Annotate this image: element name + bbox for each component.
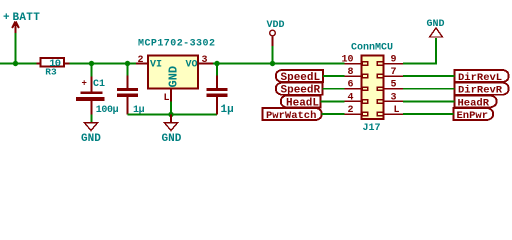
ground symbol below C1	[85, 123, 98, 131]
ground symbol below regulator	[165, 123, 178, 131]
wire SpeedL to pin 8	[323, 75, 345, 77]
C3 bottom pin	[216, 97, 218, 115]
resistor R3	[37, 58, 70, 77]
svg-text:GND: GND	[81, 133, 101, 145]
U1 pin VO stub	[198, 63, 213, 65]
svg-text:EnPwr: EnPwr	[457, 110, 489, 122]
wire pin 5 to DirRevR	[403, 88, 455, 90]
R3 left pin	[37, 63, 41, 65]
J17 pin 10 stub	[345, 63, 363, 65]
R3 right pin	[64, 63, 70, 65]
wire junction to ground symbol	[170, 115, 172, 123]
J17 pin 5 box	[377, 87, 383, 90]
svg-text:MCP1702-3302: MCP1702-3302	[138, 39, 215, 50]
J17 pin 6 stub	[345, 88, 363, 90]
svg-text:8: 8	[347, 67, 353, 78]
svg-text:R3: R3	[45, 66, 57, 77]
svg-text:9: 9	[391, 55, 397, 66]
wire pin 3 to HeadR	[403, 100, 455, 102]
C2 top plate	[117, 88, 138, 91]
svg-text:L: L	[164, 93, 170, 104]
J17 pin 4 stub	[345, 100, 363, 102]
J17 pin 4 box	[362, 100, 368, 103]
wire regulator GND pin to rail	[170, 102, 172, 115]
wire C3 to rail	[216, 64, 218, 77]
J17 body	[362, 56, 384, 120]
wire pin 9 to GND	[403, 38, 436, 64]
net label PwrWatch	[263, 108, 322, 122]
C2 bottom plate	[117, 94, 138, 97]
junction at C3 tap	[214, 61, 219, 66]
C1 top pin	[91, 77, 93, 93]
svg-text:VO: VO	[186, 60, 198, 71]
svg-text:3: 3	[391, 92, 397, 103]
svg-text:+: +	[82, 79, 87, 89]
capacitor C3 1u	[207, 76, 234, 117]
J17 pin 1 box	[377, 112, 383, 115]
J17 pin 3 stub	[384, 100, 404, 102]
C3 bottom plate	[207, 94, 228, 97]
svg-text:10: 10	[341, 55, 353, 66]
svg-text:L: L	[394, 105, 400, 116]
J17 pin 8 stub	[345, 75, 363, 77]
U1 body	[148, 56, 198, 89]
U1 pin GND stub	[170, 89, 172, 102]
svg-text:5: 5	[391, 80, 397, 91]
capacitor C2 1u	[117, 76, 145, 116]
junction at VDD tap	[270, 61, 275, 66]
wire from +BATT to rail	[15, 33, 17, 64]
wire SpeedR to pin 6	[323, 88, 345, 90]
C2 top pin	[127, 76, 129, 89]
junction at C2 tap	[125, 61, 130, 66]
J17 pin 6 box	[362, 87, 368, 90]
C3 top plate	[207, 88, 228, 91]
J17 pin 2 stub	[345, 113, 363, 115]
R3 body	[41, 58, 65, 66]
svg-text:VI: VI	[150, 60, 162, 71]
node +BATT supply	[3, 12, 40, 33]
svg-text:GND: GND	[162, 133, 182, 145]
svg-text:2: 2	[347, 105, 353, 116]
wire rail between R3 and regulator	[69, 63, 136, 65]
svg-text:4: 4	[347, 92, 353, 103]
svg-text:GND: GND	[167, 66, 181, 88]
svg-text:ConnMCU: ConnMCU	[351, 43, 393, 54]
J17 pin 8 box	[362, 74, 368, 77]
J17 pin 10 box	[362, 62, 368, 65]
net label EnPwr	[454, 108, 494, 122]
svg-text:+: +	[3, 12, 10, 24]
J17 pin 5 stub	[384, 88, 404, 90]
svg-text:6: 6	[347, 80, 353, 91]
svg-text:3: 3	[202, 55, 208, 66]
svg-text:1µ: 1µ	[221, 104, 234, 116]
wire PwrWatch to pin 2	[322, 113, 345, 115]
wire C2 to rail	[127, 64, 129, 77]
C2 bottom pin	[127, 97, 129, 115]
svg-text:C1: C1	[93, 79, 105, 90]
svg-text:100µ: 100µ	[96, 105, 119, 116]
wire C1 to rail	[91, 64, 93, 78]
svg-text:VDD: VDD	[267, 20, 285, 31]
J17 pin 1 stub	[384, 113, 404, 115]
C1 bottom pin	[91, 101, 93, 115]
wire pin 7 to DirRevL	[403, 75, 455, 77]
node GND supply top right	[427, 19, 445, 37]
wire ground rail	[128, 114, 218, 116]
svg-text:PwrWatch: PwrWatch	[266, 110, 316, 122]
J17 pin 9 stub	[384, 63, 404, 65]
wire VDD to rail	[272, 46, 274, 64]
junction at ground rail	[168, 112, 173, 117]
svg-text:J17: J17	[363, 123, 381, 134]
voltage regulator U1 MCP1702-3302	[136, 39, 215, 105]
wire rail from regulator VO to connector pin 10	[213, 63, 345, 65]
node VDD supply	[267, 20, 285, 46]
capacitor C1	[76, 77, 105, 146]
net label SpeedR	[276, 83, 323, 97]
net label HeadR	[455, 95, 497, 109]
wire pin 1 to EnPwr	[403, 113, 454, 115]
junction at +BATT tap	[13, 61, 18, 66]
J17 pin 2 box	[362, 112, 368, 115]
net label SpeedL	[276, 70, 323, 84]
C1 bottom plate	[76, 97, 105, 101]
J17 pin 7 stub	[384, 75, 404, 77]
net label HeadL	[281, 95, 321, 109]
wire C1 to ground	[91, 115, 93, 123]
junction at C1 tap	[89, 61, 94, 66]
J17 pin 3 box	[377, 100, 383, 103]
J17 pin 7 box	[377, 74, 383, 77]
svg-text:7: 7	[391, 67, 397, 78]
C3 top pin	[216, 76, 218, 89]
C1 top plate	[81, 92, 103, 95]
U1 pin VI stub	[136, 63, 148, 65]
svg-text:2: 2	[138, 55, 144, 66]
J17 pin 9 box	[377, 62, 383, 65]
net label DirRevR	[455, 83, 509, 97]
wire HeadL to pin 4	[321, 100, 345, 102]
connector J17 ConnMCU	[351, 43, 393, 135]
wire main rail left segment	[0, 63, 37, 65]
net label DirRevL	[455, 70, 509, 84]
